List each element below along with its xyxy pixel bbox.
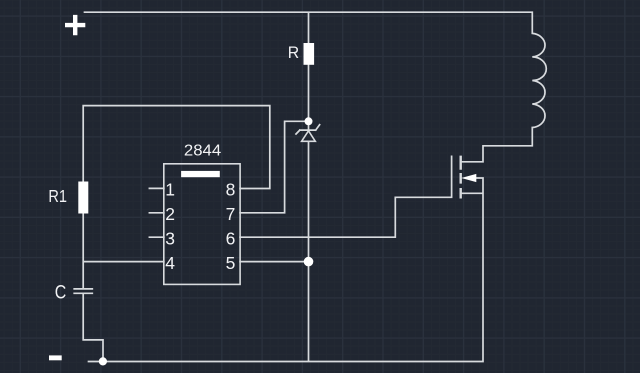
svg-text:8: 8 xyxy=(226,180,236,200)
svg-text:5: 5 xyxy=(226,253,236,273)
svg-text:7: 7 xyxy=(226,204,236,224)
svg-text:R1: R1 xyxy=(48,186,67,206)
svg-text:R: R xyxy=(288,43,299,62)
svg-text:6: 6 xyxy=(226,228,236,248)
svg-text:3: 3 xyxy=(165,228,175,248)
svg-text:C: C xyxy=(55,282,67,303)
svg-text:2844: 2844 xyxy=(184,143,222,160)
svg-text:1: 1 xyxy=(165,180,175,200)
svg-text:2: 2 xyxy=(165,204,175,224)
svg-text:4: 4 xyxy=(165,253,175,273)
